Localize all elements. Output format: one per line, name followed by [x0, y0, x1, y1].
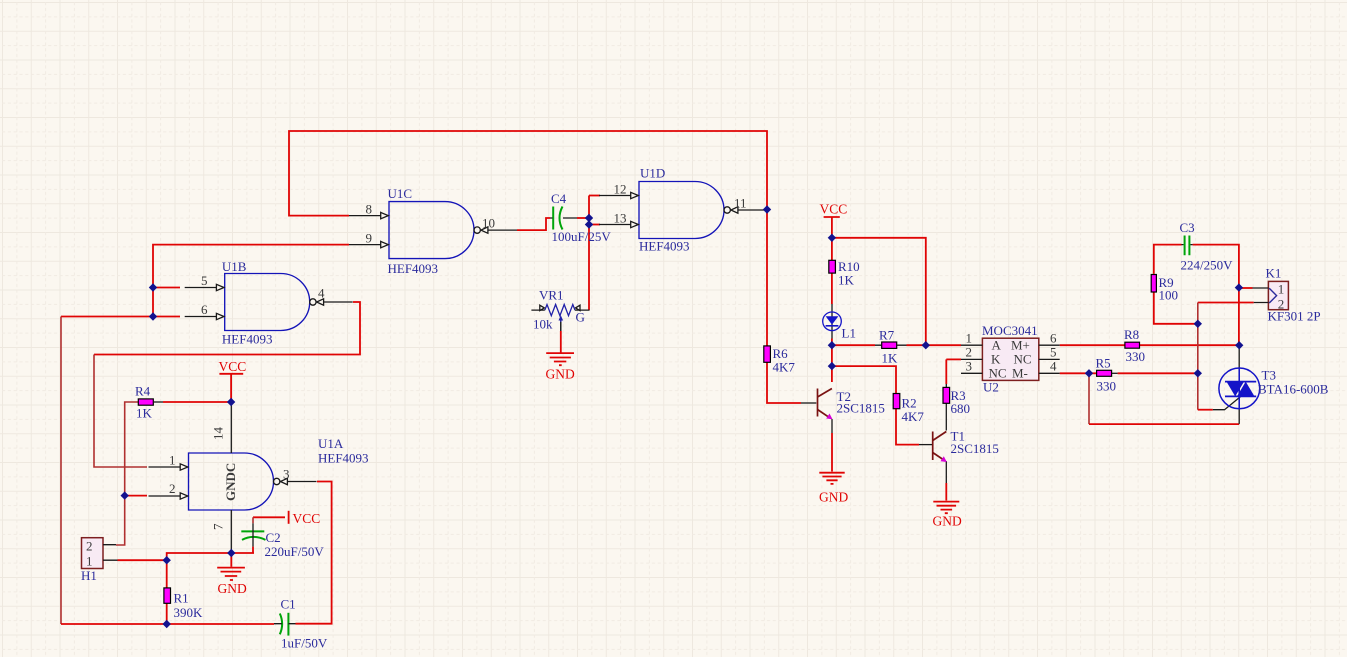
svg-text:680: 680 [951, 401, 971, 416]
wire node to R7 left [832, 344, 875, 346]
svg-text:VCC: VCC [293, 511, 321, 526]
svg-text:13: 13 [614, 211, 627, 226]
wire R9 bottom to K1 pin2 rail [1154, 293, 1198, 324]
wire T3 gate lead [1213, 397, 1241, 410]
resistor R1 [164, 588, 171, 603]
capacitor C3 [1182, 236, 1193, 256]
wire U1C.10 to C4 [517, 218, 550, 230]
svg-text:7: 7 [211, 523, 226, 530]
svg-text:5: 5 [201, 273, 208, 288]
svg-text:2: 2 [169, 481, 176, 496]
svg-text:U1C: U1C [388, 186, 413, 201]
wire R1 bottom lead [166, 603, 168, 624]
svg-text:HEF4093: HEF4093 [639, 239, 690, 254]
transistor T2 [801, 389, 833, 420]
wire node to K1.1 [1239, 287, 1253, 289]
svg-text:G: G [576, 310, 585, 325]
wire GND1 stem [230, 553, 232, 567]
wire node to U1B.6 and left rail down [61, 316, 180, 318]
svg-text:9: 9 [366, 231, 373, 246]
svg-text:NC: NC [989, 366, 1007, 381]
wire T2 collector lead [831, 366, 833, 382]
wire VCC3 stem [831, 217, 833, 238]
svg-text:A: A [992, 338, 1002, 353]
wire R4 right to VCC node [163, 401, 231, 403]
svg-text:GND: GND [218, 581, 247, 596]
wire bottom rail to C1 [61, 623, 274, 625]
resistor R7 [882, 342, 897, 348]
resistor R9 [1151, 275, 1156, 293]
svg-text:VR1: VR1 [539, 288, 564, 303]
svg-text:1uF/50V: 1uF/50V [281, 636, 328, 651]
svg-text:4: 4 [318, 286, 325, 301]
svg-text:HEF4093: HEF4093 [318, 451, 369, 466]
optocoupler U2 MOC3041 [961, 331, 1060, 381]
wire U1B.4 output loop to U1A.1 [94, 302, 360, 355]
wire C3 right down to K1 rail [1193, 245, 1239, 346]
power VCC2 [288, 511, 290, 524]
svg-text:2: 2 [966, 345, 973, 360]
wire left rail vertical [60, 317, 62, 625]
resistor R6 [764, 346, 771, 362]
wire U2.4 to R5 [1060, 372, 1097, 374]
wire node to U1B.5 [153, 287, 180, 289]
ground GND1 [217, 568, 245, 580]
svg-text:8: 8 [366, 202, 373, 217]
svg-text:4K7: 4K7 [902, 409, 925, 424]
svg-text:330: 330 [1126, 349, 1146, 364]
svg-text:H1: H1 [81, 568, 97, 583]
wire U2.6 to R8 [1060, 344, 1125, 346]
wire R10 top lead [831, 238, 833, 260]
svg-text:KF301 2P: KF301 2P [1268, 309, 1321, 324]
ground GND2 [546, 353, 574, 365]
wire feedback U1D.11 to U1C.8 [289, 131, 767, 216]
LED L1 [823, 312, 842, 331]
svg-text:6: 6 [201, 302, 208, 317]
svg-text:M-: M- [1012, 366, 1028, 381]
wire VCC node over to R7 right / U2.1 [832, 238, 926, 345]
wire L1 node down to T2 collector node [831, 345, 833, 366]
wire U2.2 stub red [946, 358, 961, 360]
svg-text:K1: K1 [1266, 266, 1282, 281]
wire C2 bottom lead [252, 547, 254, 553]
svg-text:1: 1 [86, 554, 93, 569]
svg-text:5: 5 [1050, 345, 1057, 360]
svg-text:330: 330 [1097, 379, 1117, 394]
svg-text:K: K [991, 352, 1001, 367]
svg-text:MOC3041: MOC3041 [982, 323, 1038, 338]
svg-text:NC: NC [1014, 352, 1032, 367]
wire K1 pin2 rail down to T3 gate [1197, 303, 1199, 410]
wire R3 top to U2.2 [945, 359, 947, 384]
connector H1 [82, 538, 118, 569]
svg-text:R8: R8 [1124, 327, 1139, 342]
wire R2 bottom to T1 base [896, 409, 919, 445]
svg-text:10k: 10k [533, 317, 553, 332]
wire C3 left to R9 [1154, 245, 1182, 274]
svg-text:6: 6 [1050, 331, 1057, 346]
capacitor C1 [274, 613, 296, 636]
svg-text:U2: U2 [983, 380, 999, 395]
power VCC3 [824, 216, 840, 218]
svg-text:1K: 1K [838, 273, 855, 288]
svg-text:M+: M+ [1011, 338, 1030, 353]
capacitor C2 [241, 517, 265, 546]
svg-text:GND: GND [933, 514, 962, 529]
svg-text:1K: 1K [882, 351, 899, 366]
resistor R5 [1097, 370, 1112, 376]
wire R7 right to U2.1 [907, 344, 962, 346]
wire T1 collector lead [945, 403, 947, 430]
wire C2 top to VCC2 [253, 516, 285, 518]
wire R8 right to K1 rail [1140, 344, 1240, 346]
wire VCC1 stem [230, 374, 232, 402]
resistor R2 [893, 394, 900, 409]
svg-text:4: 4 [1050, 359, 1057, 374]
connector K1 [1253, 281, 1289, 311]
svg-text:4K7: 4K7 [773, 360, 796, 375]
svg-text:2SC1815: 2SC1815 [951, 441, 999, 456]
svg-text:10: 10 [482, 216, 495, 231]
svg-text:1: 1 [966, 331, 973, 346]
wire U1D.11 node down to R6 [766, 210, 768, 346]
svg-text:T3: T3 [1262, 368, 1276, 383]
wire node to U1D.12 [589, 195, 600, 197]
wire R1 top lead [166, 560, 168, 588]
svg-text:224/250V: 224/250V [1181, 258, 1234, 273]
ground GND4 [933, 502, 959, 514]
op-amp U1C nand gate [349, 202, 517, 259]
wire C4 right to node [577, 217, 589, 219]
wire vertical to U1A pin1 [94, 355, 147, 468]
svg-text:14: 14 [211, 427, 226, 441]
svg-text:2: 2 [86, 539, 93, 554]
svg-text:11: 11 [734, 196, 747, 211]
svg-text:R7: R7 [879, 328, 895, 343]
svg-text:HEF4093: HEF4093 [388, 261, 439, 276]
op-amp U1D nand gate [599, 182, 767, 239]
wire C1 right to U1A.3 [296, 482, 332, 624]
wire K1.2 to rail [1198, 302, 1254, 304]
wire VR1 wiper to GND2 [560, 321, 562, 332]
wire T1 emitter to GND4 [945, 461, 947, 483]
svg-text:100: 100 [1159, 288, 1179, 303]
transistor T1 [919, 432, 947, 463]
wire R4 left to H1.2 [116, 402, 138, 545]
svg-text:GND: GND [546, 367, 575, 382]
svg-text:R5: R5 [1096, 356, 1111, 371]
wire R5 right to K1 pin2 rail [1118, 372, 1198, 374]
svg-text:100uF/25V: 100uF/25V [552, 229, 612, 244]
svg-text:12: 12 [614, 182, 627, 197]
svg-text:220uF/50V: 220uF/50V [265, 544, 325, 559]
svg-text:U1B: U1B [222, 259, 247, 274]
wire L1 bottom to node [831, 339, 833, 346]
svg-text:C1: C1 [281, 597, 296, 612]
wire R5 node down and to T3 MT1 [1088, 373, 1090, 424]
svg-text:C4: C4 [551, 191, 567, 206]
svg-text:VCC: VCC [219, 359, 247, 374]
resistor R10 [829, 260, 836, 273]
wire L1 lead black [831, 304, 833, 339]
svg-text:L1: L1 [842, 326, 856, 341]
wire C4 node rail to VR1 [588, 196, 590, 311]
svg-text:R1: R1 [174, 591, 189, 606]
wire T2 emitter to GND3 [831, 419, 833, 433]
resistor R4 [138, 399, 153, 405]
svg-text:390K: 390K [174, 605, 204, 620]
svg-text:2SC1815: 2SC1815 [837, 401, 885, 416]
wire U1B inputs to U1C.9 [153, 245, 349, 317]
svg-text:C3: C3 [1180, 220, 1195, 235]
svg-text:1: 1 [1278, 282, 1285, 297]
wire node to U1D.13 [589, 224, 600, 226]
resistor R3 [943, 387, 950, 403]
svg-text:3: 3 [283, 467, 290, 482]
svg-text:U1D: U1D [640, 166, 665, 181]
wire node to U1A pin2 [125, 495, 147, 497]
wire H1.1 to R1 top node [118, 553, 255, 560]
svg-text:C2: C2 [266, 530, 281, 545]
svg-text:GND: GND [819, 490, 848, 505]
ground GND3 [819, 473, 844, 484]
svg-text:GNDC: GNDC [223, 463, 238, 501]
svg-text:R4: R4 [135, 384, 151, 399]
resistor R8 [1125, 342, 1140, 348]
svg-text:3: 3 [966, 359, 973, 374]
power VCC1 [219, 373, 243, 375]
svg-text:1K: 1K [136, 406, 153, 421]
potentiometer VR1 [531, 305, 589, 332]
op-amp U1A nand gate [149, 402, 317, 553]
wire R6 bottom to T2 base [767, 362, 801, 403]
wire T3 MT2-MT1 lead [1238, 345, 1240, 424]
svg-text:VCC: VCC [820, 202, 848, 217]
svg-text:BTA16-600B: BTA16-600B [1258, 382, 1329, 397]
svg-text:1: 1 [169, 453, 176, 468]
svg-text:HEF4093: HEF4093 [222, 332, 273, 347]
svg-text:U1A: U1A [318, 436, 344, 451]
op-amp U1B nand gate [185, 273, 353, 331]
triac T3 [1219, 368, 1260, 409]
capacitor C4 [550, 207, 577, 230]
wire node to R2 top [832, 366, 896, 393]
wire R10 bottom to L1 [831, 273, 833, 304]
